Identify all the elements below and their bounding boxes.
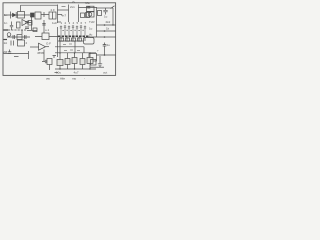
- T junction: [21, 30, 23, 34]
- dark junction box: [87, 6, 90, 8]
- cap plates: [43, 12, 45, 17]
- thick stub2: [4, 39, 8, 41]
- cap plates in chain: [13, 35, 15, 39]
- svg-text:Mic: Mic: [86, 1, 91, 5]
- right smudge box: [25, 22, 29, 29]
- top feedback wire: [21, 4, 58, 6]
- wire top mid: [58, 9, 69, 11]
- svg-text:mo: mo: [72, 76, 76, 80]
- vertical joins: [60, 41, 84, 53]
- cap C3: [103, 8, 107, 15]
- svg-text:2k2: 2k2: [106, 20, 111, 24]
- circle comp left: [7, 33, 11, 37]
- svg-text:4u: 4u: [89, 33, 93, 37]
- row label dashes: [63, 44, 80, 51]
- stub: [58, 21, 62, 23]
- transformer box: [49, 12, 56, 19]
- svg-text:1uF: 1uF: [52, 21, 57, 25]
- wire y55 right: [96, 54, 116, 56]
- small boxes above y41: [60, 38, 64, 41]
- vertical x96.5 right: [96, 17, 98, 38]
- cap bank x7: [60, 25, 86, 36]
- vertical rail x57: [57, 5, 59, 24]
- box lower-left: [18, 40, 25, 46]
- svg-text:1u: 1u: [104, 15, 108, 19]
- svg-text:Aile: Aile: [60, 76, 65, 80]
- vertical x96.5: [96, 8, 98, 17]
- mic box upper: [87, 6, 95, 11]
- wire from box: [35, 36, 58, 38]
- svg-text:10u: 10u: [56, 71, 61, 75]
- cap value dashes mid: [62, 29, 84, 32]
- vertical rail x68.5: [68, 5, 70, 23]
- junction dots y53: [59, 52, 60, 53]
- switch diag: [111, 6, 115, 9]
- svg-text:1k: 1k: [106, 27, 110, 31]
- wire y30.5 mid: [27, 30, 37, 32]
- left col: cap: [10, 22, 13, 31]
- stubs up to y53: [60, 53, 90, 60]
- svg-text:1u: 1u: [89, 27, 93, 31]
- segmented wire row y30: [8, 29, 27, 31]
- right rows wires: [97, 24, 116, 26]
- vertical x57.5 mid: [57, 27, 59, 42]
- op-amp output wire: [28, 17, 32, 30]
- box T1: [18, 12, 25, 19]
- cap ticks: [42, 24, 45, 26]
- dark bus bar: [58, 35, 90, 37]
- capacitor plate: [15, 12, 17, 18]
- vertical rail x78.5: [78, 5, 80, 23]
- small box right of mic: [98, 11, 102, 16]
- wire to right: [97, 7, 113, 9]
- cap plates2: [25, 35, 27, 39]
- vertical x50: [49, 65, 51, 71]
- bottom right box: [91, 60, 97, 66]
- thick stub: [4, 29, 9, 31]
- left col: resistor: [17, 22, 21, 28]
- svg-text:1n: 1n: [4, 21, 8, 25]
- box mid: [42, 33, 49, 40]
- svg-text:2.F: 2.F: [51, 8, 56, 12]
- chain row y37: [7, 36, 30, 38]
- bottom comp row: [57, 60, 63, 66]
- wire: [41, 14, 49, 16]
- marks: [33, 28, 37, 32]
- marks: [14, 56, 19, 58]
- svg-text:1A: 1A: [4, 41, 8, 45]
- svg-text:TxR: TxR: [89, 20, 95, 24]
- diode D1: [13, 13, 16, 16]
- box U2: [35, 12, 41, 19]
- vertical x44: [43, 20, 45, 33]
- bus stubs down: [61, 37, 85, 41]
- border frame: [3, 3, 116, 76]
- junction dots: [104, 24, 106, 26]
- box right low: [89, 54, 97, 62]
- ground symbol: [98, 56, 102, 67]
- wire y47: [30, 46, 39, 48]
- wire row y53.5: [4, 53, 29, 55]
- small box: [81, 13, 85, 18]
- vertical x57.5 low: [57, 42, 59, 57]
- cap + right: [103, 43, 107, 56]
- svg-text:+: +: [97, 49, 99, 53]
- tick mark: [62, 5, 66, 7]
- cap C2 blob: [31, 13, 35, 17]
- svg-text:out: out: [103, 71, 107, 75]
- text smudges: [3, 0, 111, 80]
- small box: [86, 13, 90, 18]
- mark: [55, 72, 59, 74]
- vertical x113: [112, 8, 114, 25]
- small mark mid-low: [53, 56, 57, 59]
- vertical drop from top wire: [20, 5, 22, 11]
- wire y67: [90, 66, 104, 68]
- mid-bottom comp: [42, 60, 47, 63]
- op-amp A1: [22, 20, 28, 26]
- svg-text:4558: 4558: [37, 51, 44, 55]
- small box top mid-left: [28, 21, 32, 26]
- svg-text:2x1: 2x1: [70, 5, 75, 9]
- mic box lower: [87, 12, 95, 17]
- wire 2: [58, 14, 63, 16]
- cap above wire: [8, 50, 11, 54]
- op-amp A2 triangle: [39, 43, 46, 50]
- capacitor plate: [10, 12, 12, 19]
- wire top right: [79, 7, 98, 9]
- svg-text:2x.: 2x.: [72, 0, 76, 4]
- box in chain: [17, 35, 22, 40]
- svg-text:2u: 2u: [107, 43, 111, 47]
- svg-text:1n: 1n: [4, 13, 8, 17]
- lower-left marks: [11, 41, 14, 46]
- rounded box right: [84, 38, 95, 45]
- junction: [104, 54, 106, 56]
- vertical x44 low: [43, 50, 45, 62]
- vertical x28.5: [28, 51, 30, 59]
- lower rows: [58, 40, 84, 42]
- svg-text:O.F: O.F: [46, 42, 51, 46]
- svg-text:-: -: [84, 76, 85, 80]
- svg-text:o.1: o.1: [45, 28, 50, 32]
- junction dots y69: [59, 68, 60, 69]
- svg-text:2M: 2M: [3, 50, 8, 54]
- circle in box: [88, 13, 92, 17]
- svg-text:4u7: 4u7: [74, 71, 79, 75]
- bottom wire y69: [55, 68, 96, 70]
- wire input row: [4, 14, 30, 16]
- stubs down: [60, 64, 90, 70]
- svg-text:4n7: 4n7: [61, 14, 66, 18]
